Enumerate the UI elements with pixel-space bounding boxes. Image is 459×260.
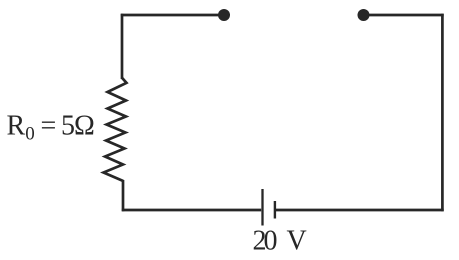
terminal node dot left (218, 9, 230, 21)
wire top-left horizontal (corner to left terminal) (121, 14, 224, 17)
svg-text:=: = (41, 111, 57, 142)
wire right vertical (441, 14, 444, 212)
resistor R0 zigzag body (104, 78, 127, 181)
terminal node dot right (358, 9, 370, 21)
wire top-right horizontal (right terminal to right corner) (363, 14, 444, 17)
wire left vertical (top corner down to resistor) (121, 14, 124, 79)
svg-text:V: V (287, 226, 307, 257)
svg-text:5Ω: 5Ω (61, 111, 94, 142)
wire bottom-left (resistor bottom to battery long plate) (122, 209, 261, 212)
svg-text:R0: R0 (7, 111, 35, 145)
svg-text:20: 20 (253, 226, 277, 257)
battery BT1 long plate (+) (261, 189, 263, 226)
battery BT1 short plate (-) (274, 201, 276, 219)
wire bottom-right (battery short plate to right corner) (276, 209, 444, 212)
wire resistor bottom stub (122, 180, 125, 211)
